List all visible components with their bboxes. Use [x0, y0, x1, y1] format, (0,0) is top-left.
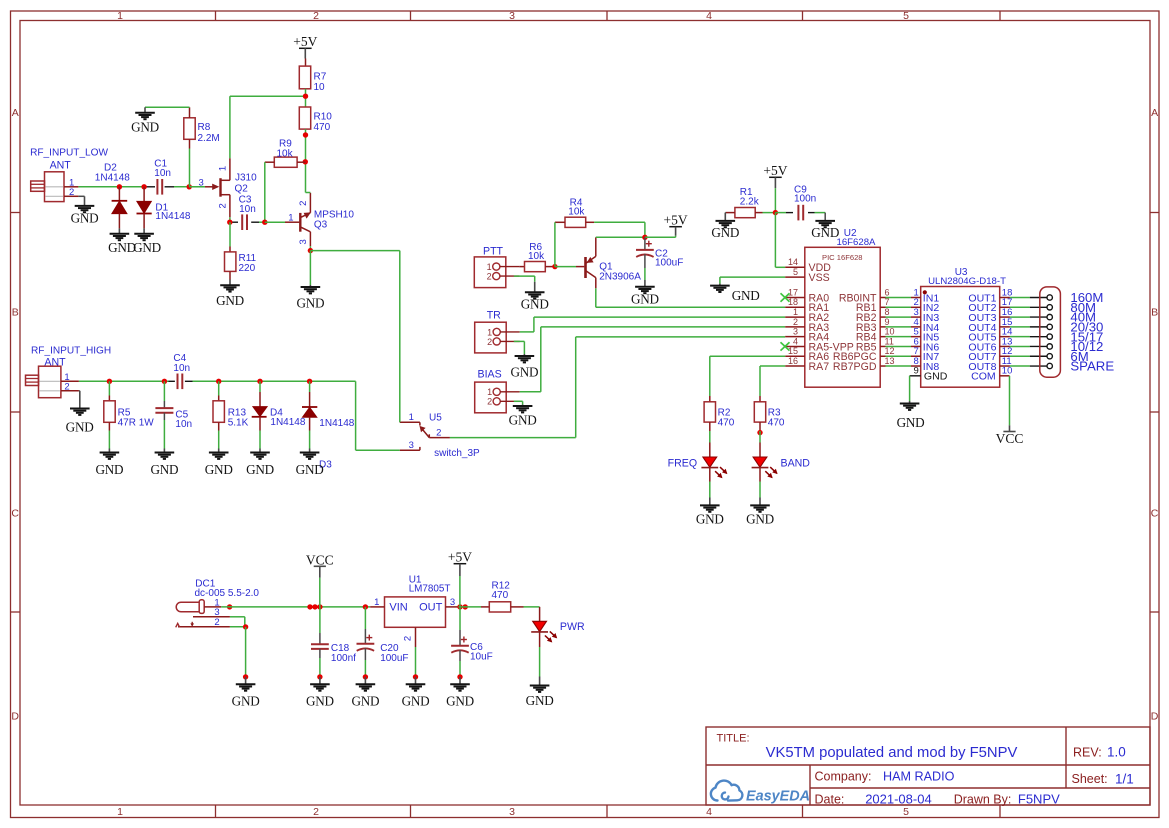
transistor Q3 MPSH10 — [265, 221, 285, 223]
ground at R11 — [229, 280, 231, 286]
wire DC1 pin3 to pin2 node — [230, 616, 245, 618]
svg-text:ULN2804G-D18-T: ULN2804G-D18-T — [928, 276, 1006, 287]
wire R4 right to +5V node — [594, 221, 645, 223]
wire OUT8 to header — [1010, 365, 1030, 367]
no-connect X at RA0 — [781, 293, 790, 301]
svg-text:5: 5 — [903, 806, 909, 818]
svg-text:GND: GND — [232, 694, 260, 709]
svg-text:Q3: Q3 — [314, 220, 328, 231]
svg-text:1N4148: 1N4148 — [270, 417, 305, 428]
svg-text:2: 2 — [298, 201, 309, 206]
wire C9 right to ground — [824, 213, 826, 221]
svg-text:9: 9 — [885, 317, 890, 327]
svg-text:PIC 16F628: PIC 16F628 — [822, 253, 863, 262]
svg-text:5: 5 — [903, 10, 909, 22]
transistor Q1 2N3906A — [576, 266, 584, 268]
svg-text:1: 1 — [487, 262, 492, 272]
svg-text:100uF: 100uF — [380, 653, 408, 664]
svg-text:1: 1 — [374, 597, 379, 608]
svg-text:1: 1 — [409, 412, 414, 423]
svg-text:SPARE: SPARE — [1070, 359, 1114, 374]
svg-text:Q2: Q2 — [235, 184, 249, 195]
svg-text:GND: GND — [131, 119, 159, 134]
svg-text:5.1K: 5.1K — [228, 417, 249, 428]
svg-text:GND: GND — [402, 694, 430, 709]
node R6/R4/Q1 base — [552, 264, 557, 269]
wire R8 to signal — [189, 149, 191, 187]
svg-text:TR: TR — [487, 309, 501, 321]
capacitor C3 10n — [231, 221, 238, 223]
svg-text:GND: GND — [296, 462, 324, 477]
ground at C18 — [319, 677, 321, 684]
svg-text:3: 3 — [509, 806, 515, 818]
ground at D3 — [309, 449, 311, 453]
svg-text:dc-005 5.5-2.0: dc-005 5.5-2.0 — [195, 588, 260, 599]
LED PWR — [539, 607, 541, 621]
svg-text:switch_3P: switch_3P — [434, 448, 480, 459]
svg-text:GND: GND — [696, 511, 724, 526]
ground at ANT high pin2 — [79, 391, 81, 409]
node above DC1 ground — [243, 674, 248, 679]
wire R12 to PWR LED — [524, 606, 540, 608]
header pin 6M — [1030, 355, 1047, 357]
svg-text:2021-08-04: 2021-08-04 — [865, 792, 932, 807]
svg-text:Sheet:: Sheet: — [1072, 772, 1108, 786]
U2 pin 4 RA5-VPP — [785, 345, 805, 347]
wire VCC to rail — [319, 578, 321, 607]
svg-text:LM7805T: LM7805T — [409, 584, 451, 595]
U2 pin 12 RB6PGC — [880, 355, 885, 357]
U2 pin 2 RA3 — [785, 326, 805, 328]
svg-text:17: 17 — [788, 287, 798, 297]
wire R10 node to Q3 collector — [306, 192, 311, 194]
U3 pin 9 GND — [910, 375, 921, 377]
ground at R5 — [108, 449, 110, 453]
svg-text:2.2M: 2.2M — [198, 133, 220, 144]
resistor R8 2.2M — [184, 118, 195, 140]
wire +5V down to node — [774, 188, 776, 213]
svg-text:C: C — [11, 508, 19, 520]
svg-text:1.0: 1.0 — [1107, 745, 1126, 760]
svg-text:1N4148: 1N4148 — [95, 172, 130, 183]
svg-text:PTT: PTT — [483, 246, 504, 258]
svg-text:2: 2 — [793, 317, 798, 327]
U2 pin 13 RB7PGD — [880, 365, 885, 367]
U2 pin 16 RA7 — [785, 365, 805, 367]
wire Q2 source down — [229, 217, 231, 222]
ground at ANT low pin2 — [84, 196, 86, 206]
node rail C20 — [363, 604, 368, 609]
svg-text:GND: GND — [205, 462, 233, 477]
pin 1 of ANT low — [64, 186, 78, 188]
wire switch pin2 to RA4 row — [576, 336, 786, 338]
svg-text:2: 2 — [487, 272, 492, 282]
switch U5 switch_3P — [400, 421, 420, 423]
U3 pin 15 OUT4 — [1000, 326, 1010, 328]
wire DC1 return to ground — [245, 627, 247, 677]
U3 pin 5 IN5 — [911, 336, 921, 338]
svg-text:16: 16 — [788, 356, 798, 366]
svg-text:GND: GND — [216, 293, 244, 308]
node D3 top — [307, 379, 312, 384]
ground at R1 — [724, 213, 726, 221]
svg-text:3: 3 — [793, 327, 798, 337]
U1 pin 1 VIN — [370, 606, 384, 608]
U3 pin 11 OUT8 — [1000, 365, 1010, 367]
svg-text:HAM RADIO: HAM RADIO — [883, 770, 955, 784]
U2 pin 6 RB0INT — [880, 297, 885, 299]
svg-text:2: 2 — [436, 428, 441, 439]
svg-text:RF_INPUT_LOW: RF_INPUT_LOW — [30, 147, 108, 158]
svg-text:2: 2 — [313, 806, 319, 818]
svg-text:1: 1 — [487, 387, 492, 397]
ground at C2 — [644, 280, 646, 287]
svg-text:REV:: REV: — [1073, 746, 1102, 760]
VCC net flag at COM — [1009, 425, 1011, 431]
U3 pin1 marker — [923, 290, 927, 294]
U2 pin 10 RB4 — [880, 336, 885, 338]
svg-text:RF_INPUT_HIGH: RF_INPUT_HIGH — [31, 345, 111, 356]
svg-text:2: 2 — [313, 10, 319, 22]
svg-text:GND: GND — [306, 694, 334, 709]
wire PTT pin2 to ground — [514, 275, 535, 277]
diode D2 1N4148 — [118, 187, 120, 201]
svg-text:7: 7 — [885, 297, 890, 307]
wire OUT node to R12 — [458, 606, 481, 608]
node above C6 ground — [457, 674, 462, 679]
EasyEDA logo — [711, 781, 743, 801]
svg-text:6: 6 — [885, 287, 890, 297]
wire R8 top to ground — [145, 106, 190, 108]
wire OUT5 to header — [1010, 336, 1030, 338]
svg-text:100uF: 100uF — [655, 258, 683, 269]
ground at U3 — [909, 401, 911, 404]
header pin 15/17 — [1030, 336, 1047, 338]
capacitor C4 10n — [177, 374, 179, 390]
U1 pin 2 GND — [415, 627, 417, 647]
node gate junction — [187, 184, 192, 189]
capacitor C18 100nf — [319, 607, 321, 633]
U3 pin 16 OUT3 — [1000, 316, 1010, 318]
svg-text:3: 3 — [199, 177, 204, 188]
node Q3 output — [308, 248, 313, 253]
svg-text:2: 2 — [64, 382, 69, 393]
svg-text:GND: GND — [296, 296, 324, 311]
svg-text:VK5TM populated and mod by F5N: VK5TM populated and mod by F5NPV — [766, 745, 1018, 761]
svg-text:1: 1 — [288, 212, 293, 223]
svg-text:470: 470 — [768, 417, 785, 428]
resistor R1 2.2k — [735, 208, 755, 218]
wire U2 RB3 to U3 — [886, 326, 912, 328]
U2 pin 9 RB3 — [880, 326, 885, 328]
svg-text:GND: GND — [811, 225, 839, 240]
svg-text:2: 2 — [214, 617, 219, 628]
U3 pin 10 COM — [1000, 375, 1010, 377]
svg-text:47R 1W: 47R 1W — [118, 417, 155, 428]
node R5 top — [107, 379, 112, 384]
wire OUT6 to header — [1010, 345, 1030, 347]
DC1 pin 3 — [193, 616, 230, 618]
U2 pin 7 RB1 — [880, 306, 885, 308]
svg-text:10: 10 — [885, 327, 895, 337]
wire switch pin2 to RA4 — [450, 437, 576, 439]
U1 pin 3 OUT — [446, 606, 459, 608]
diode D1 1N4148 — [143, 187, 145, 202]
node rail c — [317, 604, 322, 609]
U2 pin 18 RA1 — [785, 306, 805, 308]
wire Q1 collector to RA1 — [595, 288, 597, 307]
svg-text:1N4148: 1N4148 — [319, 418, 354, 429]
header connector (band outputs) — [1040, 287, 1061, 377]
wire VIN rail — [221, 606, 370, 608]
svg-text:12: 12 — [885, 346, 895, 356]
wire Q3 node down to switch pin1 — [399, 251, 401, 423]
node DC1 pin1 — [227, 604, 232, 609]
svg-text:J310: J310 — [235, 172, 257, 183]
svg-text:+5V: +5V — [448, 549, 472, 564]
node D2 anode junction — [117, 184, 122, 189]
resistor R13 5.1K — [218, 381, 220, 395]
svg-text:GND: GND — [108, 240, 136, 255]
svg-text:GND: GND — [246, 462, 274, 477]
svg-text:GND: GND — [631, 291, 659, 306]
wire OUT1 to header — [1010, 297, 1030, 299]
node D1 junction — [141, 184, 146, 189]
svg-text:R10: R10 — [314, 111, 333, 122]
node C3 left — [227, 220, 232, 225]
header pin 80M — [1030, 306, 1047, 308]
header pin 20/30 — [1030, 326, 1047, 328]
svg-text:Date:: Date: — [815, 793, 845, 807]
svg-text:4: 4 — [706, 10, 712, 22]
svg-text:EasyEDA: EasyEDA — [746, 789, 810, 805]
ground at BIAS — [522, 405, 524, 406]
ground at TR — [523, 354, 525, 356]
diode D4 1N4148 — [259, 381, 261, 392]
node C2/+5V — [642, 235, 647, 240]
svg-text:1/1: 1/1 — [1115, 772, 1134, 787]
svg-text:+5V: +5V — [293, 34, 317, 49]
svg-text:10n: 10n — [173, 363, 190, 374]
resistor R4 10k — [565, 217, 586, 227]
ground at D2 — [118, 228, 120, 233]
svg-text:16F628A: 16F628A — [837, 237, 877, 248]
svg-text:2: 2 — [218, 203, 229, 208]
svg-text:BIAS: BIAS — [478, 368, 502, 380]
svg-text:9: 9 — [914, 366, 919, 377]
wire Q2 drain to R7/R10 node — [229, 96, 231, 158]
header pin 10/12 — [1030, 345, 1047, 347]
svg-text:GND: GND — [66, 420, 94, 435]
op-amp U3 ULN2804G-D18-T body — [921, 287, 1000, 388]
U2 pin 1 RA2 — [785, 316, 805, 318]
node C3 right / Q3 base — [262, 220, 267, 225]
resistor R5 47R 1W — [108, 381, 110, 395]
wire R1 left to ground — [724, 212, 727, 214]
svg-text:4: 4 — [706, 806, 712, 818]
capacitor C20 100uF — [364, 607, 366, 629]
DC1 pin 2 — [178, 626, 230, 628]
svg-text:D: D — [11, 711, 19, 723]
svg-text:5: 5 — [793, 267, 798, 277]
svg-text:2.2k: 2.2k — [740, 196, 760, 207]
wire +5V to OUT node — [459, 576, 461, 607]
svg-text:R8: R8 — [198, 122, 211, 133]
node OUT b — [463, 604, 468, 609]
svg-text:10n: 10n — [154, 168, 171, 179]
svg-text:100nf: 100nf — [331, 653, 356, 664]
svg-text:10n: 10n — [175, 419, 192, 430]
ground at D1 — [143, 228, 145, 233]
wire OUT7 to header — [1010, 355, 1030, 357]
U3 pin 2 IN2 — [911, 306, 921, 308]
svg-text:D: D — [1151, 711, 1159, 723]
svg-text:VSS: VSS — [809, 272, 830, 284]
svg-text:10k: 10k — [568, 207, 585, 218]
wire RA7 to R3 — [760, 365, 785, 367]
wire +5V node to VDD — [774, 213, 776, 268]
svg-text:100n: 100n — [794, 194, 816, 205]
wire base node to Q1 — [555, 266, 576, 268]
svg-text:14: 14 — [788, 257, 798, 267]
node above C18 ground — [317, 674, 322, 679]
resistor R12 470 — [481, 606, 489, 608]
svg-text:VIN: VIN — [389, 602, 407, 614]
U2 pin 11 RB5 — [880, 345, 885, 347]
svg-text:VCC: VCC — [996, 431, 1024, 446]
svg-text:1: 1 — [487, 327, 492, 337]
svg-text:GND: GND — [521, 296, 549, 311]
wire RF low signal — [78, 186, 146, 188]
resistor R11 220 — [229, 222, 231, 246]
svg-text:ANT: ANT — [50, 160, 72, 172]
pin 2 of ANT low — [64, 195, 78, 197]
title block — [706, 727, 1150, 805]
wire U2 RB0INT to U3 — [886, 297, 912, 299]
resistor R3 470 — [759, 396, 761, 402]
U3 pin 18 OUT1 — [1000, 297, 1010, 299]
svg-text:GND: GND — [510, 365, 538, 380]
svg-text:GND: GND — [133, 240, 161, 255]
svg-text:GND: GND — [526, 693, 554, 708]
ground at PTT — [534, 282, 536, 293]
capacitor C6 10uF — [459, 607, 461, 630]
capacitor C2 100uF — [644, 237, 646, 250]
svg-text:470: 470 — [718, 417, 735, 428]
svg-text:B: B — [1151, 307, 1158, 319]
svg-text:B: B — [12, 307, 19, 319]
svg-text:18: 18 — [788, 297, 798, 307]
capacitor C9 100n — [775, 212, 786, 214]
node +5V/R1/C9/VDD — [773, 210, 778, 215]
wire U2 RB4 to U3 — [886, 336, 912, 338]
wire U3 GND pin down — [909, 376, 911, 401]
wire Q3 emitter to node — [309, 246, 311, 250]
svg-text:1: 1 — [117, 10, 123, 22]
svg-text:1: 1 — [117, 806, 123, 818]
U2 pin 8 RB2 — [880, 316, 885, 318]
svg-text:10k: 10k — [277, 148, 294, 159]
LED FREQ — [709, 431, 711, 443]
svg-text:PWR: PWR — [560, 621, 585, 633]
U2 pin 15 RA6 — [785, 355, 805, 357]
svg-text:15: 15 — [788, 346, 798, 356]
wire Q3 output to switch pin1 — [310, 250, 399, 252]
wire U2 RB1 to U3 — [886, 306, 912, 308]
wire ANT high pin2 to ground — [78, 390, 81, 392]
op-amp U2 16F628A body — [805, 247, 880, 387]
svg-text:GND: GND — [150, 462, 178, 477]
U3 pin 4 IN4 — [911, 326, 921, 328]
svg-text:GND: GND — [446, 694, 474, 709]
svg-text:Drawn By:: Drawn By: — [954, 793, 1012, 807]
pin 2 of ANT high — [61, 390, 79, 392]
svg-text:GND: GND — [732, 288, 760, 303]
resistor R2 470 — [709, 396, 711, 402]
ground at C5 — [163, 449, 165, 453]
resistor R6 10k — [519, 266, 524, 268]
svg-text:RB7PGD: RB7PGD — [833, 361, 877, 373]
svg-text:OUT: OUT — [419, 602, 443, 614]
svg-text:F5NPV: F5NPV — [1018, 792, 1060, 807]
svg-text:COM: COM — [971, 371, 996, 383]
ground at VSS — [719, 284, 721, 286]
node rail b — [312, 604, 317, 609]
U3 pin 12 OUT7 — [1000, 355, 1010, 357]
svg-text:Company:: Company: — [815, 770, 872, 784]
wire R4 left to base node — [554, 222, 556, 266]
wire R10 bottom to Q3 — [305, 129, 307, 192]
svg-text:1: 1 — [218, 166, 229, 171]
U3 pin 8 IN8 — [911, 365, 921, 367]
ground at BAND LED — [759, 498, 761, 506]
wire VSS to ground — [720, 276, 785, 278]
node above C20 ground — [363, 674, 368, 679]
svg-text:2N3906A: 2N3906A — [599, 271, 641, 282]
ground at PWR LED — [539, 677, 541, 686]
ground at R8 — [144, 107, 146, 113]
DC1 pin 1 — [204, 606, 221, 608]
node R3 bottom — [757, 430, 762, 435]
capacitor C5 10n — [163, 381, 165, 401]
wire +5V to node — [675, 236, 677, 238]
svg-text:U5: U5 — [429, 412, 442, 423]
U3 pin 6 IN6 — [911, 345, 921, 347]
svg-text:BAND: BAND — [781, 457, 811, 469]
U3 pin 17 OUT2 — [1000, 306, 1010, 308]
svg-text:3: 3 — [298, 239, 309, 244]
svg-text:GND: GND — [95, 462, 123, 477]
ground at D4 — [259, 449, 261, 453]
wire RF high signal rail — [79, 380, 169, 382]
wire U2 RB7PGD to U3 — [886, 365, 912, 367]
node DC1 return — [243, 624, 248, 629]
LED BAND — [759, 431, 761, 443]
svg-text:GND: GND — [711, 225, 739, 240]
svg-text:10k: 10k — [528, 251, 545, 262]
pin 1 of ANT high — [61, 380, 79, 382]
svg-text:470: 470 — [314, 122, 331, 133]
ground at C9 — [815, 220, 835, 222]
wire COM to VCC — [1009, 376, 1011, 425]
svg-text:1N4148: 1N4148 — [155, 211, 190, 222]
capacitor C1 — [156, 179, 158, 195]
svg-text:GND: GND — [897, 415, 925, 430]
wire Q1 emitter to +5V node — [596, 236, 645, 238]
wire BIAS pin2 to ground — [514, 400, 523, 402]
svg-text:GND: GND — [71, 211, 99, 226]
header pin 40M — [1030, 316, 1047, 318]
